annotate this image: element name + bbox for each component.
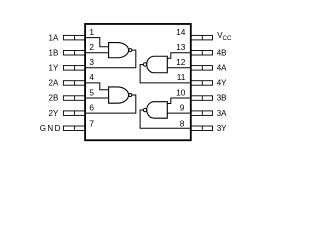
pin 6 stub [63, 111, 85, 116]
bubble gate U1D [143, 63, 146, 66]
wire gate4 output to pin11 [140, 65, 190, 83]
pin 11 stub [191, 81, 213, 86]
NAND gate U1C [147, 102, 168, 119]
svg-text:2B: 2B [49, 94, 59, 103]
svg-text:3A: 3A [217, 109, 227, 118]
svg-text:6: 6 [89, 102, 94, 112]
pin 14 stub [191, 35, 213, 40]
wire pin12 to gate4 input B [167, 67, 190, 69]
svg-text:4: 4 [89, 72, 94, 82]
svg-text:13: 13 [176, 42, 186, 52]
bubble gate U1A [129, 49, 132, 52]
pin 13 stub [191, 51, 213, 56]
svg-text:1A: 1A [49, 33, 59, 42]
NAND gate U1D [147, 56, 168, 73]
pin 2 stub [63, 51, 85, 56]
NAND gate U1B [109, 87, 129, 103]
NAND gate U1A [109, 43, 129, 58]
pin 8 stub [191, 126, 213, 131]
svg-text:14: 14 [176, 27, 186, 37]
svg-text:2: 2 [89, 42, 94, 52]
IC package body U1 [85, 24, 191, 140]
wire gate3 output to pin8 [140, 110, 190, 128]
svg-text:GND: GND [40, 124, 62, 133]
svg-text:3B: 3B [217, 94, 227, 103]
pin 12 stub [191, 66, 213, 71]
wire pin13 to gate4 input A [167, 53, 190, 59]
svg-text:8: 8 [180, 118, 185, 128]
svg-text:7: 7 [89, 118, 94, 128]
pin 4 stub [63, 81, 85, 86]
pin 7 stub [63, 126, 85, 131]
wire pin10 to gate3 input A [167, 98, 190, 103]
wire pin9 to gate3 input B [167, 112, 190, 114]
svg-text:10: 10 [176, 87, 186, 97]
svg-text:4A: 4A [217, 64, 227, 73]
wire pin2 to gate1 input B [86, 52, 109, 54]
wire gate2 output to pin6 [86, 95, 136, 113]
pin 9 stub [191, 111, 213, 116]
svg-text:5: 5 [89, 87, 94, 97]
svg-text:3Y: 3Y [217, 124, 227, 133]
wire gate1 output to pin3 [86, 50, 136, 68]
pin 5 stub [63, 96, 85, 101]
svg-text:3: 3 [89, 57, 94, 67]
svg-text:1B: 1B [49, 48, 59, 57]
pin 1 stub [63, 35, 85, 40]
svg-text:2A: 2A [49, 79, 59, 88]
bubble gate U1C [143, 108, 146, 111]
svg-text:2Y: 2Y [49, 109, 59, 118]
wire pin4 to gate2 input A [86, 83, 109, 90]
svg-text:9: 9 [180, 102, 185, 112]
svg-text:VCC: VCC [217, 31, 232, 42]
bubble gate U1B [129, 93, 132, 96]
svg-text:12: 12 [176, 57, 186, 67]
pin 10 stub [191, 96, 213, 101]
pin 3 stub [63, 66, 85, 71]
wire pin5 to gate2 input B [86, 97, 109, 99]
svg-text:1: 1 [89, 27, 94, 37]
svg-text:4B: 4B [217, 48, 227, 57]
wire pin1 to gate1 input A [86, 38, 109, 47]
svg-text:4Y: 4Y [217, 79, 227, 88]
svg-text:1Y: 1Y [49, 64, 59, 73]
svg-text:11: 11 [177, 72, 186, 82]
